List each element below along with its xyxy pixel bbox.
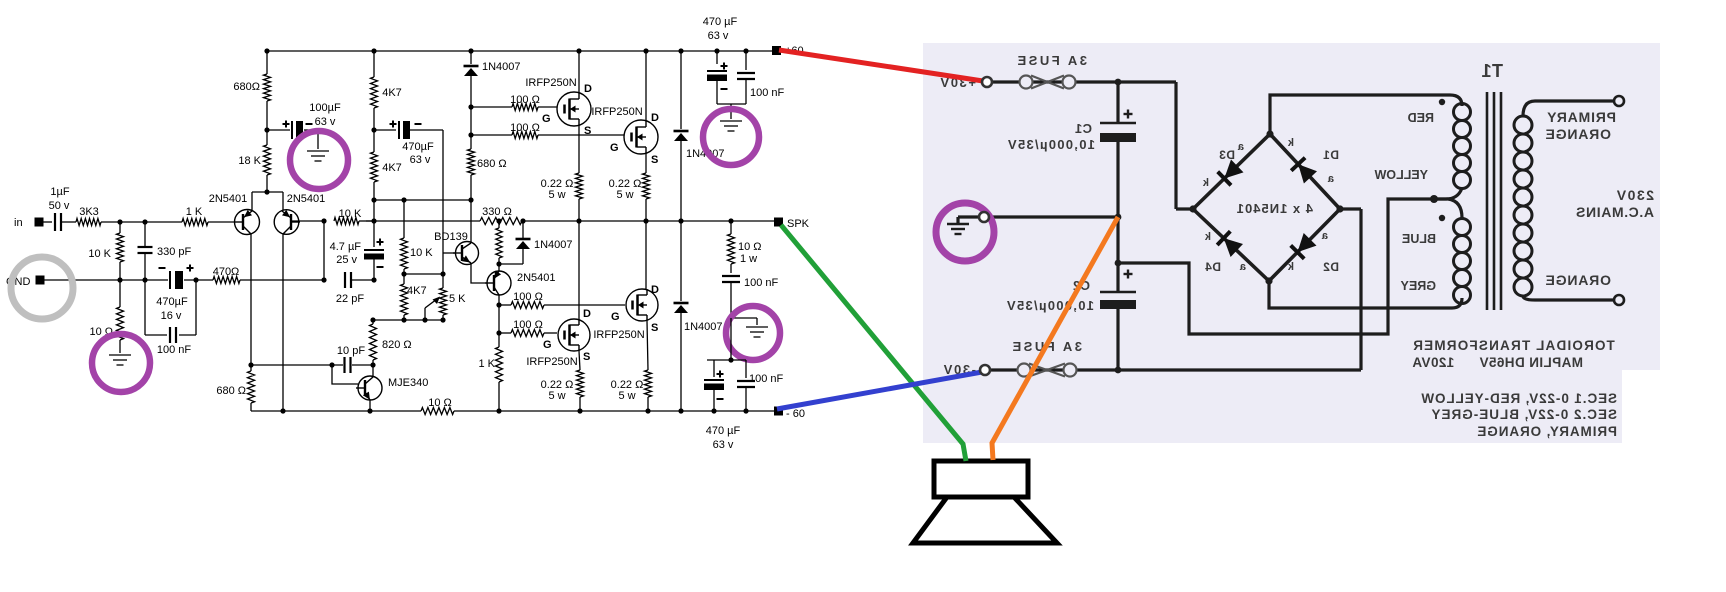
svg-text:MAPLIN DH65V 120VA: MAPLIN DH65V 120VA [1412,355,1583,370]
pin M2 S [651,154,658,166]
purple circle 100uF-gnd [290,131,348,189]
node brail-746 [743,408,748,413]
node rail-471 [468,48,473,53]
wire BD139 emitter [471,263,487,283]
label 230V [1615,187,1654,203]
label 680R lower [216,385,246,397]
label +30V [939,75,976,90]
label 10R input-gnd [89,326,113,338]
svg-text:10 K: 10 K [410,247,433,259]
resistor 4K7 bias [401,274,408,320]
svg-text:k: k [1202,177,1209,189]
diode D3 1N4007 lower [674,221,689,411]
node vas-emitter [496,261,501,266]
wire vas node [499,264,523,271]
wire 100uF row [267,130,318,149]
resistor 0R22 M1 [576,126,583,221]
pin M3 S [583,351,590,363]
svg-text:G: G [543,339,552,351]
node gate-c [496,302,501,307]
pin M4 S [651,322,658,334]
svg-text:GREY: GREY [1400,279,1436,293]
svg-text:680 Ω: 680 Ω [216,385,246,397]
label bridge 4x1N5401 [1236,201,1313,216]
capacitor 470uF 16v [170,271,183,289]
wire blue -30V [777,372,982,409]
grey circle around GND [11,257,73,319]
node gnd-3 [193,277,198,282]
svg-text:470µF: 470µF [402,141,434,153]
label 10K feedback [339,208,362,220]
svg-text:- 60: - 60 [786,408,805,420]
wire MJE collector [372,365,374,376]
wire 0V line [989,215,1118,218]
node bias3-373 [370,317,375,322]
resistor 820R [370,320,377,365]
transistor Q1 2N5401 [234,210,260,235]
node bridge left [1189,205,1196,212]
pin M4 G [611,311,620,323]
power-supply background panel [923,43,1660,443]
svg-text:10 Ω: 10 Ω [738,241,762,253]
capacitor 470uF 63v top [707,51,727,104]
pin M2 G [610,142,619,154]
polarity 100uF [283,121,313,128]
pin M1 S [584,125,591,137]
label D3 1N4007 [684,321,723,333]
label T1 [1481,61,1503,81]
wire red +30V [779,50,983,81]
terminal +supply [772,46,781,55]
node rail-579 [576,48,581,53]
polarity 470uF63 [390,121,422,128]
label Q4 2N5401 [517,272,556,284]
node rail-374 [371,48,376,53]
resistor 100R gate-c [499,302,625,309]
svg-text:1 K: 1 K [478,358,495,370]
node rail-499 [496,218,501,223]
capacitor 470uF 63v mid [399,121,410,139]
terminal in [35,218,44,227]
node brail-648 [645,408,650,413]
label 100R gate-d [513,319,543,331]
svg-text:k: k [1287,137,1294,149]
svg-text:63 v: 63 v [713,439,734,451]
node gnd-1 [117,277,122,282]
label PRIMARY ORANGE [1476,424,1617,439]
svg-text:S: S [651,322,658,334]
node bias-404 [401,197,406,202]
terminal GND [36,276,45,285]
label MJE340 [388,377,428,389]
polarity 470uF bottom [717,371,724,400]
label 1K vas [478,358,495,370]
node mid-681 [678,218,683,223]
wire BD139 feed [443,130,456,274]
mosfet M4 IRFP250N [626,289,658,321]
label D4 [1205,260,1221,274]
svg-text:2N5401: 2N5401 [517,272,556,284]
resistor 10K feedback [334,218,374,225]
fuse F2 3A [1018,364,1077,377]
node bias3-443 [440,317,445,322]
svg-text:10 pF: 10 pF [337,345,365,357]
wire input [43,221,235,223]
label 100nF bottom [749,373,784,385]
transistor Q2 2N5401 [274,210,300,235]
svg-text:16 v: 16 v [161,310,182,322]
pin M4 D [651,284,659,296]
wire MJE emitter [369,400,371,411]
ground psu [947,224,969,234]
svg-text:5 w: 5 w [548,390,565,402]
node psu -30 C2 [1115,367,1122,374]
label 100R gate-c [513,291,543,303]
label D3 [1219,148,1235,162]
node bias3-425 [422,317,427,322]
svg-text:SEC.1 0-22V, RED-YELLOW: SEC.1 0-22V, RED-YELLOW [1421,391,1618,406]
svg-text:G: G [611,311,620,323]
wire -30V rail [990,368,1361,371]
svg-text:a: a [1239,261,1246,273]
wire bridge right to -30 [1340,209,1361,370]
svg-text:4K7: 4K7 [382,87,402,99]
label D1 1N4007 [482,61,521,73]
label 100uF 63v [309,102,341,128]
winding secondary RED-YELLOW [1434,104,1471,200]
label 680R driver [477,158,507,170]
ground input [109,355,131,365]
wire Q2 collector [282,234,284,411]
terminal primary top [1614,96,1624,106]
resistor 10K bias [401,200,408,274]
svg-text:D2: D2 [1323,260,1339,274]
svg-text:100µF: 100µF [309,102,341,114]
pin M2 D [651,112,659,124]
node brail-499 [496,408,501,413]
label 10pF [337,345,365,357]
wire decouple bus top [717,104,746,119]
phase dot secondary-2 [1439,215,1445,221]
resistor 10R rail [421,408,454,415]
svg-text:YELLOW: YELLOW [1374,168,1428,182]
wire VAS collector [498,295,500,305]
label 10K input [88,248,111,260]
node brail-681 [678,408,683,413]
svg-text:a: a [1321,230,1328,242]
mosfet M2 IRFP250N [624,120,658,154]
node bias-374 [371,197,376,202]
terminal primary bottom [1614,295,1624,305]
wire bias row2 [404,273,443,275]
transistor Q5 MJE340 [356,376,382,400]
label F1 3A FUSE [1015,53,1087,68]
node q2c-rail [280,408,285,413]
svg-text:100 Ω: 100 Ω [510,122,540,134]
resistor VAS load [496,221,502,264]
svg-text:IRFP250N: IRFP250N [525,77,576,89]
wire 0V gnd lead [958,217,979,223]
node bridge right [1336,205,1343,212]
wire emitter bus [252,175,283,210]
node miller-251 [248,362,253,367]
wire top +rail [267,50,772,52]
node mid-731 [728,218,733,223]
svg-text:S: S [584,125,591,137]
label 820R [382,339,412,351]
label D3 k [1202,177,1209,189]
label 0R22 M1 [541,178,574,201]
node in-1 [117,219,122,224]
label BD139 [434,231,468,243]
label F2 3A FUSE [1010,339,1082,354]
resistor 680R driver [468,135,475,200]
wire Q1 collector [250,234,252,365]
label in [14,217,23,229]
wire miller row [251,364,373,366]
svg-text:100 Ω: 100 Ω [513,319,543,331]
speaker box [934,461,1028,497]
wire bottom -rail [251,410,774,412]
wire green SPK [781,225,966,461]
svg-text:100 Ω: 100 Ω [513,291,543,303]
polarity C1 [1124,110,1133,119]
label SPK [787,218,810,230]
node bridge top [1266,130,1273,137]
transistor Q3 BD139 [453,242,479,265]
svg-text:470 µF: 470 µF [706,425,741,437]
node fb-right [371,218,376,223]
node center tap [1430,195,1438,203]
svg-text:5 w: 5 w [548,189,565,201]
speaker cone [913,497,1057,543]
diode D3 bridge [1218,160,1244,186]
label C2 [1073,278,1090,293]
node bias2-404 [401,271,406,276]
wire C1-C2 chain [1116,142,1119,292]
resistor 100R gate-b [471,132,624,139]
node Q2 base [321,218,326,223]
node gnd-2 [142,277,147,282]
svg-text:10 Ω: 10 Ω [428,397,452,409]
node rail-646 [643,48,648,53]
wire mid output rail [366,220,774,222]
node psu rail-C1 [1115,79,1122,86]
mosfet M3 IRFP250N [558,319,590,351]
label -30V [942,362,976,377]
resistor 18K [264,130,271,175]
bridge diamond [1193,134,1340,281]
svg-text:SPK: SPK [787,218,810,230]
svg-text:10,000µ/35V: 10,000µ/35V [1006,298,1094,313]
label +60 [785,45,804,57]
svg-text:G: G [610,142,619,154]
label -60 [786,408,805,420]
pin M1 D [584,83,592,95]
svg-text:1 K: 1 K [186,206,203,218]
label 18K [238,155,261,167]
fuse F1 3A [1020,76,1076,89]
terminal circle 0V [979,212,989,222]
svg-text:230V: 230V [1615,187,1654,203]
svg-text:PRIMARY, ORANGE: PRIMARY, ORANGE [1476,424,1617,439]
label MAPLIN [1412,355,1583,370]
wire bridge bottom to GREY [1269,281,1462,308]
label Q1 2N5401 [209,193,248,205]
label 0R22 M2 [609,178,642,201]
capacitor 100nF top [737,51,755,104]
label SEC2 [1430,407,1617,422]
resistor 10K input [117,222,124,280]
wire C1 chain top [1116,82,1119,123]
wire bias row3 [373,319,443,321]
wire 470uF63 row [374,129,443,131]
svg-text:330 pF: 330 pF [157,246,192,258]
capacitor C1 10000uF [1100,123,1136,142]
node miller-373 [370,362,375,367]
label 1K input [186,206,203,218]
svg-text:D3: D3 [1219,148,1235,162]
polarity 470uF16 [159,265,194,272]
svg-text:470µF: 470µF [156,296,188,308]
svg-text:50 v: 50 v [49,200,70,212]
node fb-22pF [321,277,326,282]
capacitor 100nF zobel [722,276,740,282]
svg-text:1N4007: 1N4007 [482,61,521,73]
svg-text:330 Ω: 330 Ω [482,206,512,218]
label 4.7uF 25v [330,241,362,266]
node rail-267 [264,48,269,53]
node bias2-443 [440,271,445,276]
label 10K bias [410,247,433,259]
pin M3 G [543,339,552,351]
svg-text:BD139: BD139 [434,231,468,243]
svg-text:820 Ω: 820 Ω [382,339,412,351]
wire primary top [1523,101,1614,116]
node miller-332 [329,362,334,367]
winding secondary BLUE-GREY [1434,199,1471,304]
label 0R22 M4 [611,379,644,402]
trimmer arrow [425,297,440,321]
node bias3-404 [401,317,406,322]
wire fb node vertical [323,221,325,280]
capacitor 100uF 63v [292,121,303,139]
svg-text:D: D [651,284,659,296]
label D2 k [1287,261,1294,273]
label D1 k [1287,137,1294,149]
svg-text:5 w: 5 w [616,189,633,201]
label D4 a [1239,261,1246,273]
node brail-714 [711,408,716,413]
label 470R [213,266,240,278]
svg-text:1µF: 1µF [50,186,69,198]
pin M3 D [583,308,591,320]
label TOROIDAL [1412,338,1615,353]
node rail-523 [520,218,525,223]
node bias-471 [468,197,473,202]
svg-text:RED: RED [1408,111,1434,125]
resistor 680R lower [248,365,255,411]
wire +30V rail [983,82,1193,209]
label 4K7 upper [382,87,402,99]
resistor 0R22 M3 [577,351,584,411]
wire C2 bottom [1116,308,1119,370]
wire M4 drain [645,221,647,289]
label C1 value [1007,137,1095,152]
svg-text:63 v: 63 v [410,154,431,166]
svg-text:G: G [542,113,551,125]
svg-text:100 Ω: 100 Ω [510,94,540,106]
capacitor 100nF bottom [737,360,755,411]
wire M1 drain [578,51,580,92]
svg-text:4K7: 4K7 [407,285,427,297]
resistor 0R22 M2 [643,154,650,221]
node rail-746 [743,48,748,53]
svg-text:2N5401: 2N5401 [209,193,248,205]
svg-text:2N5401: 2N5401 [287,193,326,205]
svg-text:1N4007: 1N4007 [534,239,573,251]
label 4K7 bias [407,285,427,297]
wire gnd rail [44,279,324,281]
resistor 10R zobel [728,221,735,273]
svg-text:a: a [1327,173,1334,185]
svg-text:D1: D1 [1323,148,1339,162]
capacitor 22pF [345,272,351,288]
label Q2 2N5401 [287,193,326,205]
label RED [1408,111,1434,125]
label GREY [1400,279,1436,293]
wire Q2 base [291,220,324,222]
ground 100uF [307,151,329,161]
node gate-b [468,132,473,137]
transformer core [1487,92,1501,310]
label D1 [1323,148,1339,162]
label M3 IRFP250N [526,356,577,368]
pin M1 G [542,113,551,125]
label PRIMARY [1546,109,1616,125]
node psu 0V [1115,214,1122,221]
label 680R tail [233,81,260,93]
wire orange 0V [992,217,1118,460]
svg-text:1N4007: 1N4007 [684,321,723,333]
svg-text:S: S [583,351,590,363]
label 100nF zobel [744,277,779,289]
svg-text:470 µF: 470 µF [703,16,738,28]
wire 22pF right [351,279,374,281]
polarity 4.7uF [377,239,384,268]
svg-text:18 K: 18 K [238,155,261,167]
purple circle zobel [726,306,780,360]
resistor 1K input [182,219,208,226]
svg-text:22 pF: 22 pF [336,293,364,305]
label 0R22 M3 [541,379,574,402]
wire 374 midrail stub [373,200,375,221]
resistor 3K3 [76,219,101,226]
label SEC1 [1421,391,1618,406]
resistor 470R [213,277,240,284]
resistor 0R22 M4 [645,321,652,411]
trimmer 5K [440,274,447,320]
node rail-681 [678,48,683,53]
svg-text:D: D [584,83,592,95]
label D2 [1323,260,1339,274]
node psu centertap [1115,260,1122,267]
svg-text:A.C.MAINS: A.C.MAINS [1575,204,1654,220]
label 470uF 63v top [703,16,738,42]
label YELLOW [1374,168,1428,182]
svg-text:TOROIDAL TRANSFORMER: TOROIDAL TRANSFORMER [1412,338,1615,353]
node gate-d [496,330,501,335]
